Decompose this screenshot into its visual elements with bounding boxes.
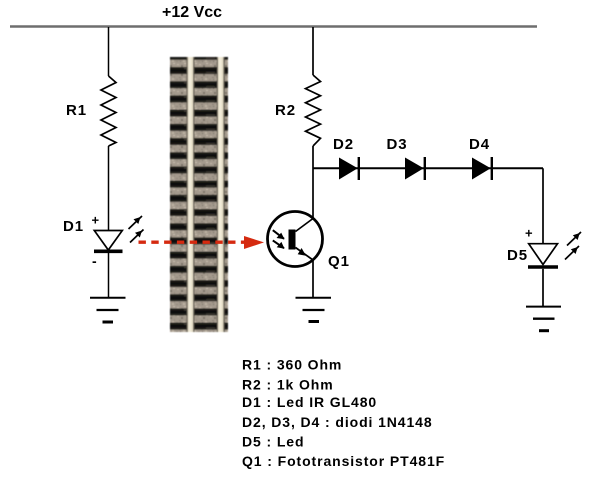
wire corner to D5 — [542, 168, 544, 244]
diode row wire — [313, 167, 543, 169]
svg-text:Q1 : Fototransistor PT481F: Q1 : Fototransistor PT481F — [242, 453, 445, 469]
resistor R2 — [306, 75, 321, 146]
+12V power rail — [10, 25, 537, 27]
wire rail to R1 — [108, 27, 110, 76]
svg-text:D3: D3 — [387, 136, 408, 153]
wire R1 to D1 — [108, 146, 110, 231]
svg-text:Q1: Q1 — [328, 253, 350, 270]
red dashed light beam arrow — [139, 236, 265, 249]
svg-text:+: + — [92, 213, 101, 228]
svg-text:R2: R2 — [275, 102, 296, 119]
D1 light arrow upper — [129, 216, 143, 229]
phototransistor Q1 — [268, 212, 323, 267]
diode D2 — [339, 157, 359, 180]
svg-text:+12 Vcc: +12 Vcc — [162, 4, 222, 21]
diode D3 — [405, 157, 425, 180]
D5 light arrow lower — [565, 246, 579, 260]
ground below D5 — [526, 307, 561, 331]
wire D5 to ground — [542, 269, 544, 307]
svg-text:D2: D2 — [333, 136, 354, 153]
resistor R1 — [101, 76, 116, 146]
svg-text:D2, D3, D4 : diodi 1N4148: D2, D3, D4 : diodi 1N4148 — [242, 414, 433, 430]
svg-text:D4: D4 — [469, 136, 490, 153]
svg-text:D1: D1 — [63, 218, 84, 235]
wire D1 to ground — [108, 253, 110, 298]
D5 light arrow upper — [567, 232, 581, 246]
svg-text:D5 : Led: D5 : Led — [242, 434, 304, 450]
ground below D1 — [90, 298, 126, 322]
svg-text:+: + — [525, 226, 534, 241]
wire Q1 emitter to ground — [312, 259, 314, 298]
svg-text:R1 : 360 Ohm: R1 : 360 Ohm — [242, 357, 342, 373]
LED D1 — [94, 231, 123, 252]
svg-text:-: - — [92, 253, 98, 269]
svg-text:R2 : 1k Ohm: R2 : 1k Ohm — [242, 377, 334, 393]
diode D4 — [472, 157, 492, 180]
ground below Q1 — [296, 298, 332, 322]
D1 light arrow lower — [130, 230, 144, 243]
wire rail to R2 — [312, 27, 314, 75]
railway track photo — [170, 57, 228, 332]
wire R2 to diode row junction — [312, 146, 314, 219]
svg-text:D5: D5 — [507, 247, 528, 264]
svg-text:R1: R1 — [66, 102, 87, 119]
LED D5 — [528, 244, 558, 267]
svg-text:D1 : Led IR GL480: D1 : Led IR GL480 — [242, 394, 377, 410]
